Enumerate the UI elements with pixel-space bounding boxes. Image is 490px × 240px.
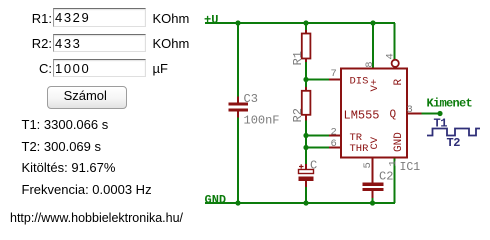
svg-text:5: 5 — [362, 162, 374, 168]
resistor R1 — [302, 34, 311, 59]
wire R1 top lead — [305, 23, 307, 31]
junction bottom C3 — [235, 200, 240, 205]
wire +U top rail — [205, 22, 395, 24]
svg-text:8: 8 — [364, 61, 376, 67]
resistor R2 — [302, 91, 311, 115]
svg-text:LM555: LM555 — [344, 109, 380, 123]
wire pin2 net — [306, 135, 329, 137]
svg-text:4: 4 — [385, 53, 397, 59]
lead C2 bottom stub — [372, 191, 374, 198]
waveform square wave — [427, 129, 480, 136]
svg-text:THR: THR — [350, 143, 370, 155]
lead pin2 stub — [329, 135, 341, 137]
svg-text:GND: GND — [205, 193, 227, 207]
wire pin3 net — [421, 113, 440, 115]
result T1 — [22, 117, 109, 132]
junction pin2 — [303, 133, 308, 138]
wire C3 top branch — [237, 23, 239, 97]
lead pin7 stub — [329, 79, 341, 81]
svg-text:C: C — [310, 159, 317, 173]
svg-text:6: 6 — [331, 138, 337, 150]
input C — [53, 59, 146, 78]
capacitor C3 plates — [229, 103, 249, 112]
junction top R1 — [303, 20, 308, 25]
junction bottom C — [303, 200, 308, 205]
capacitor C top plate — [299, 170, 314, 174]
lead pin6 stub — [329, 147, 341, 149]
URL line — [10, 211, 183, 225]
wire pin6 net — [306, 147, 329, 149]
svg-text:C2: C2 — [379, 170, 393, 184]
lead R1 top — [305, 30, 307, 34]
lead R2 bottom — [305, 115, 307, 121]
junction top C3 — [235, 20, 240, 25]
op-amp U1 body: IC LM555 box — [341, 69, 407, 158]
svg-text:Q: Q — [390, 109, 397, 121]
svg-text:3: 3 — [407, 104, 413, 116]
svg-text:100nF: 100nF — [244, 114, 280, 128]
capacitor C2 plates — [363, 183, 384, 192]
lead C bottom — [305, 181, 307, 187]
capacitor C plus sign — [299, 164, 304, 168]
svg-text:R2: R2 — [291, 108, 305, 122]
lead C3 top — [237, 97, 239, 103]
junction pin6 — [303, 145, 308, 150]
junction top pin8 — [370, 20, 375, 25]
result Kitöltés — [22, 160, 116, 175]
input R2 — [53, 34, 146, 53]
svg-text:1: 1 — [388, 160, 400, 166]
node output dot — [437, 111, 442, 116]
svg-text:GND: GND — [393, 132, 405, 152]
lead R1 bottom — [305, 58, 307, 62]
lead C3 bottom — [237, 112, 239, 118]
wire pin1 riser — [394, 158, 396, 204]
svg-text:Kimenet: Kimenet — [427, 97, 473, 111]
svg-text:R1: R1 — [291, 51, 305, 65]
junction bottom C2 — [370, 200, 375, 205]
svg-text:7: 7 — [331, 68, 337, 80]
svg-text:V+: V+ — [369, 79, 381, 92]
wire pin8 drop — [372, 23, 374, 69]
lead C top — [305, 164, 307, 170]
form labels — [0, 11, 52, 26]
wire C2 bottom lead — [372, 198, 374, 204]
svg-text:2: 2 — [331, 127, 337, 139]
lead R2 top — [305, 87, 307, 91]
wire R2 to C node — [305, 117, 307, 165]
wire R1-R2 node — [305, 60, 307, 89]
unit labels — [153, 11, 190, 26]
svg-text:DIS: DIS — [350, 76, 369, 88]
button Számol — [47, 86, 128, 109]
wire pin7 net — [306, 79, 329, 81]
svg-text:R: R — [393, 79, 405, 86]
lead pin3 stub — [407, 113, 422, 115]
svg-text:T2: T2 — [447, 136, 461, 150]
junction R1-R2-pin7 — [303, 77, 308, 82]
input R1 — [53, 8, 146, 27]
svg-text:C3: C3 — [244, 92, 258, 106]
wire C bottom lead — [305, 187, 307, 204]
svg-text:IC1: IC1 — [400, 161, 421, 174]
wire C3 bottom branch — [237, 118, 239, 204]
result T2 — [22, 139, 102, 154]
wire GND bottom rail — [205, 202, 395, 204]
wire pin4 drop — [394, 23, 396, 60]
result Frekvencia — [22, 182, 152, 197]
pin4 inversion bubble — [392, 60, 399, 67]
svg-text:+U: +U — [204, 13, 218, 27]
capacitor C bottom plate — [299, 177, 314, 182]
svg-text:CV: CV — [369, 136, 381, 149]
lead pin5 stub — [372, 158, 374, 183]
